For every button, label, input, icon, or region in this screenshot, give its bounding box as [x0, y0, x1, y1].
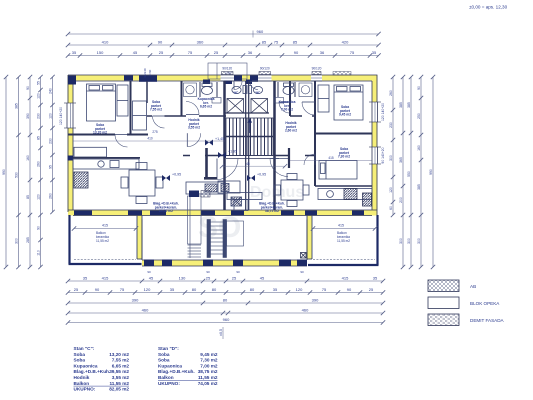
balcony C dim: [72, 224, 138, 231]
exterior wall right (yellow): [372, 75, 378, 215]
wall soba C2 bottom: [147, 115, 181, 117]
svg-text:BLOK OPEKA: BLOK OPEKA: [470, 301, 500, 306]
svg-text:80: 80: [192, 287, 197, 292]
shower D: [299, 83, 312, 97]
svg-text:45: 45: [246, 162, 250, 166]
wc C fixture: [232, 86, 247, 94]
dimension line bottom 1: [66, 276, 385, 284]
dimension line left 2: [15, 75, 21, 269]
svg-text:Balkon: Balkon: [158, 375, 174, 380]
svg-text:7,55 m2: 7,55 m2: [112, 358, 130, 363]
kitchen counter C2: [186, 182, 224, 194]
svg-text:25: 25: [159, 50, 164, 55]
svg-text:75: 75: [120, 287, 125, 292]
svg-text:3,55 m2: 3,55 m2: [112, 375, 130, 380]
shaft block top wall: [139, 68, 157, 82]
svg-text:38,75 m2: 38,75 m2: [198, 369, 218, 374]
door bedroom D: [302, 102, 315, 115]
svg-text:2,60 m2: 2,60 m2: [285, 129, 297, 133]
svg-text:Stan "C":: Stan "C":: [74, 346, 95, 351]
entry door C: [234, 82, 242, 90]
svg-text:±0,5: ±0,5: [219, 329, 223, 336]
dimension line left 1: [2, 75, 8, 269]
interior dim hline2: [73, 140, 225, 142]
balcony C parapet (yellow): [137, 216, 142, 260]
opening bottom wall 8: [352, 211, 364, 216]
entry door block C: [234, 75, 242, 80]
terrace pillar 4: [233, 260, 243, 267]
svg-text:25: 25: [206, 276, 211, 281]
svg-text:45: 45: [260, 276, 265, 281]
stair landing: [226, 156, 279, 159]
svg-text:120: 120: [37, 93, 41, 99]
svg-text:275: 275: [152, 130, 158, 134]
svg-text:UKUPNO:: UKUPNO:: [158, 381, 180, 386]
dining table D: [275, 174, 310, 207]
svg-text:+1,45: +1,45: [215, 137, 224, 141]
svg-text:11,55 m2: 11,55 m2: [198, 375, 218, 380]
svg-text:Soba: Soba: [158, 352, 170, 357]
svg-text:240: 240: [49, 88, 53, 94]
wardrobe D: [318, 85, 329, 112]
svg-text:25: 25: [214, 50, 219, 55]
svg-text:7,30 m2: 7,30 m2: [338, 155, 350, 159]
door bathroom C: [186, 102, 199, 115]
dimension line left 3: [26, 75, 32, 269]
dimension line bottom 4: [66, 308, 385, 316]
svg-text:7,30 m2: 7,30 m2: [200, 358, 218, 363]
svg-text:90: 90: [206, 270, 210, 274]
svg-text:120: 120: [49, 113, 53, 119]
svg-text:25: 25: [74, 287, 79, 292]
level mark +0,95 at 251,178: [247, 173, 266, 182]
svg-text:90: 90: [300, 270, 304, 274]
kitchen counter D: [318, 189, 372, 200]
svg-text:90/120: 90/120: [260, 67, 270, 71]
interior walls unit D: [274, 81, 372, 210]
label soba C2: [150, 100, 162, 112]
staircase: [226, 118, 273, 156]
stove X square center: [231, 197, 242, 206]
entry jamb blocks: [203, 80, 252, 85]
svg-text:300: 300: [399, 238, 403, 244]
svg-text:+0,95: +0,95: [257, 173, 266, 177]
svg-text:415: 415: [338, 224, 344, 228]
svg-text:230: 230: [389, 122, 393, 128]
svg-text:11,55 m2: 11,55 m2: [109, 381, 129, 386]
label hodnik C: [188, 118, 200, 130]
window top wall 1: [221, 67, 235, 82]
svg-text:35: 35: [170, 287, 175, 292]
opening bottom wall 6: [281, 211, 294, 216]
balcony C outline: [69, 215, 143, 264]
svg-text:±0,00 = aps. 12,30: ±0,00 = aps. 12,30: [469, 5, 508, 10]
svg-text:55: 55: [37, 81, 41, 85]
opening bottom wall 3: [150, 211, 166, 216]
dimension line left 4: [37, 75, 43, 269]
label soba D1: [339, 105, 351, 117]
svg-text:110: 110: [37, 250, 41, 256]
svg-text:75: 75: [350, 50, 355, 55]
svg-text:415: 415: [342, 276, 349, 281]
svg-text:Stan "D":: Stan "D":: [158, 346, 179, 351]
shaft box D (X): [251, 99, 268, 114]
terrace pillar 1: [144, 260, 154, 267]
svg-text:260: 260: [389, 90, 393, 96]
svg-text:74,05 m2: 74,05 m2: [198, 381, 218, 386]
svg-text:45: 45: [149, 276, 154, 281]
window top wall 2: [258, 67, 272, 82]
svg-text:95: 95: [49, 165, 53, 169]
svg-text:120: 120: [144, 287, 151, 292]
svg-text:90: 90: [417, 86, 421, 90]
center dividing wall: [246, 81, 249, 210]
level mark +1,95 at 222,155: [218, 150, 237, 159]
svg-text:200: 200: [399, 197, 403, 203]
svg-text:90/240: 90/240: [143, 68, 147, 78]
svg-text:460: 460: [142, 308, 149, 313]
svg-text:530: 530: [15, 172, 19, 178]
svg-text:120 140+20: 120 140+20: [59, 107, 63, 125]
svg-text:385: 385: [407, 102, 411, 108]
svg-text:960: 960: [223, 317, 230, 322]
svg-text:11,55 m2: 11,55 m2: [96, 239, 109, 243]
svg-text:36: 36: [248, 50, 253, 55]
svg-text:80: 80: [223, 298, 228, 303]
svg-text:Kupaonica: Kupaonica: [74, 363, 98, 368]
svg-text:WC: WC: [256, 91, 261, 95]
svg-text:Blag.+D.B.+Kuh.: Blag.+D.B.+Kuh.: [158, 369, 195, 374]
svg-text:990: 990: [429, 169, 433, 175]
exterior wall bottom (yellow): [68, 210, 377, 216]
door bedroom C: [115, 135, 128, 148]
entry canopy outline: [208, 63, 247, 79]
svg-text:300: 300: [15, 238, 19, 244]
legend DEMIT FASADA: [428, 314, 505, 326]
washbasin D: [275, 98, 284, 104]
dimension line bottom 2: [66, 287, 385, 295]
kitchen wall line C: [68, 157, 140, 159]
shower C: [184, 83, 197, 97]
opening bottom wall 7: [305, 211, 317, 216]
wall block 1: [124, 75, 133, 80]
interior dim hline: [290, 160, 372, 162]
svg-text:Soba: Soba: [158, 358, 170, 363]
interior walls unit C: [68, 81, 226, 210]
svg-text:360: 360: [197, 40, 204, 45]
terrace pillar 3: [203, 260, 213, 267]
svg-text:90: 90: [294, 50, 299, 55]
svg-text:300: 300: [417, 238, 421, 244]
svg-text:WC: WC: [234, 91, 239, 95]
svg-text:120: 120: [389, 187, 393, 193]
entry door D: [250, 82, 258, 90]
svg-text:AB: AB: [470, 284, 476, 289]
datum mark bottom center: [219, 327, 223, 339]
label kupaonica D: [279, 100, 296, 112]
svg-text:230: 230: [37, 113, 41, 119]
balcony D dim: [311, 224, 377, 231]
svg-text:90: 90: [95, 287, 100, 292]
exterior wall top (yellow): [68, 75, 377, 81]
label soba D2: [338, 147, 350, 159]
washbasin C: [212, 98, 221, 104]
svg-text:90/120: 90/120: [222, 67, 232, 71]
label living C: [153, 202, 179, 214]
door bathroom D: [279, 102, 290, 113]
svg-text:300: 300: [389, 155, 393, 161]
svg-text:390: 390: [132, 298, 139, 303]
balcony D outline: [307, 215, 379, 265]
dimension line right 4: [417, 75, 423, 269]
svg-text:6,65 m2: 6,65 m2: [200, 105, 212, 109]
wall edge lines: [68, 75, 377, 216]
svg-text:75: 75: [188, 50, 193, 55]
legend BLOK OPEKA: [428, 297, 500, 309]
balcony D corner X: [301, 253, 307, 259]
svg-text:90: 90: [147, 270, 151, 274]
svg-text:365: 365: [399, 157, 403, 163]
bed C: [87, 84, 116, 121]
stair arrow: [248, 119, 251, 133]
svg-text:385: 385: [399, 102, 403, 108]
svg-text:385: 385: [15, 103, 19, 109]
appliance block C1: [189, 191, 199, 198]
area table stan D: [158, 346, 218, 386]
opening bottom wall 1: [74, 211, 92, 216]
svg-text:260: 260: [49, 193, 53, 199]
exterior wall left (yellow): [68, 75, 74, 212]
svg-text:85: 85: [37, 136, 41, 140]
dimension line right 1: [389, 75, 395, 217]
wc D fixture: [248, 86, 263, 94]
terrace planter: [227, 221, 244, 246]
svg-text:90: 90: [347, 287, 352, 292]
label wc D: [256, 91, 261, 95]
svg-text:Hodnik: Hodnik: [74, 375, 90, 380]
svg-text:260: 260: [37, 161, 41, 167]
svg-text:Kupaonica: Kupaonica: [158, 363, 182, 368]
window left wall: [59, 103, 76, 128]
svg-text:+1,95: +1,95: [228, 150, 237, 154]
shaft box C (X): [227, 99, 244, 114]
svg-text:25: 25: [232, 276, 237, 281]
svg-text:6,65 m2: 6,65 m2: [112, 363, 130, 368]
svg-text:35: 35: [273, 287, 278, 292]
svg-text:960: 960: [257, 29, 264, 34]
kitchen counter C: [73, 159, 139, 169]
svg-text:120: 120: [37, 194, 41, 200]
counter long center: [227, 193, 262, 200]
svg-text:120 140+20: 120 140+20: [381, 103, 385, 121]
stove C hatched: [74, 172, 88, 188]
svg-text:90 140+20: 90 140+20: [381, 147, 385, 163]
svg-text:13,20 m2: 13,20 m2: [93, 131, 107, 135]
opening bottom wall 5: [231, 211, 244, 216]
window top wall 3: [311, 67, 322, 82]
svg-text:415: 415: [102, 276, 109, 281]
area table stan C: [74, 346, 130, 392]
balcony D parapet (yellow): [307, 216, 312, 260]
svg-text:160: 160: [417, 145, 421, 151]
dimension line top A: [66, 40, 381, 48]
svg-text:160: 160: [26, 155, 30, 161]
dimension line right 2: [399, 75, 405, 269]
svg-text:7,00 m2: 7,00 m2: [200, 363, 218, 368]
svg-text:39,55 m2: 39,55 m2: [109, 369, 129, 374]
wardrobe C1: [117, 85, 128, 116]
svg-text:415: 415: [328, 156, 334, 160]
left wall block: [68, 156, 74, 161]
door living C: [217, 159, 238, 180]
svg-text:285: 285: [26, 237, 30, 243]
dimension line bottom 3: [66, 298, 385, 306]
dimension line right 3: [407, 75, 413, 269]
svg-text:7,00 m2: 7,00 m2: [281, 108, 293, 112]
svg-text:420: 420: [342, 40, 349, 45]
window right wall 2: [369, 147, 385, 164]
appliance block C2: [201, 191, 210, 198]
label soba C1: [93, 123, 107, 135]
door soba C2: [153, 116, 165, 128]
svg-text:85: 85: [262, 40, 267, 45]
buffet column terrace: [188, 196, 202, 258]
svg-text:990: 990: [2, 169, 6, 175]
svg-text:90: 90: [26, 86, 30, 90]
label kupaonica C: [198, 97, 215, 109]
svg-text:Soba: Soba: [74, 358, 86, 363]
svg-text:150: 150: [97, 50, 104, 55]
svg-text:7,55 m2: 7,55 m2: [150, 108, 162, 112]
svg-text:460: 460: [302, 308, 309, 313]
watermark: [198, 184, 304, 244]
terrace parapet edges: [142, 220, 307, 267]
label living D: [259, 202, 285, 214]
balcony C dashed floor edge: [74, 259, 136, 261]
entry wall D: [288, 148, 290, 168]
svg-text:410: 410: [147, 137, 153, 141]
level mark +1,45 at 209,142.5: [205, 137, 224, 146]
dimension line left 5: [49, 75, 55, 214]
svg-text:80: 80: [250, 287, 255, 292]
terrace pillar 6: [297, 260, 307, 267]
svg-text:90/120: 90/120: [312, 67, 322, 71]
svg-text:SO: SO: [198, 211, 241, 244]
svg-text:120: 120: [296, 287, 303, 292]
svg-text:415: 415: [102, 224, 108, 228]
door bedroom D2: [304, 154, 315, 165]
svg-text:82,05 m2: 82,05 m2: [109, 387, 129, 392]
fridge D: [363, 193, 372, 206]
label wc C: [234, 91, 239, 95]
svg-text:9,45 m2: 9,45 m2: [339, 113, 351, 117]
interior dim line 45: [222, 165, 285, 167]
stairwell top wall: [224, 112, 269, 114]
svg-text:250: 250: [417, 113, 421, 119]
svg-text:38,75 m2: 38,75 m2: [265, 209, 279, 213]
svg-text:85: 85: [26, 195, 30, 199]
svg-text:75: 75: [322, 287, 327, 292]
svg-text:9,45 m2: 9,45 m2: [200, 352, 218, 357]
wardrobe C2: [133, 101, 147, 130]
svg-text:36: 36: [320, 50, 325, 55]
label hodnik D: [285, 121, 297, 133]
svg-text:35: 35: [373, 276, 378, 281]
svg-text:Balkon: Balkon: [74, 381, 90, 386]
bed D: [334, 85, 363, 120]
level mark +0,95 at 166,178: [162, 173, 181, 182]
door corridor living C: [187, 133, 200, 146]
svg-text:45: 45: [133, 50, 138, 55]
stove D hatched: [344, 189, 357, 200]
kitchen upper counter C: [74, 147, 107, 157]
overall width line 960: [66, 29, 381, 38]
terrace pillar 2: [162, 260, 172, 267]
bed D2: [319, 161, 357, 180]
dimension line top B: [66, 50, 381, 58]
legend AB: [428, 280, 476, 292]
svg-text:90: 90: [37, 226, 41, 230]
door living D: [270, 159, 288, 177]
svg-text:90: 90: [236, 270, 240, 274]
window right wall 1: [369, 102, 385, 122]
terrace pillar 5: [279, 260, 291, 267]
svg-text:60: 60: [389, 206, 393, 210]
svg-text:13,20 m2: 13,20 m2: [109, 352, 129, 357]
svg-text:385: 385: [417, 184, 421, 190]
svg-text:130: 130: [179, 276, 186, 281]
svg-text:Blag.+D.B.+Kuh.: Blag.+D.B.+Kuh.: [74, 369, 111, 374]
svg-text:DEMIT FASADA: DEMIT FASADA: [470, 318, 505, 323]
toilet D: [283, 83, 294, 95]
svg-text:3,55 m2: 3,55 m2: [188, 126, 200, 130]
svg-text:39,55 m2: 39,55 m2: [159, 209, 173, 213]
svg-text:300: 300: [407, 238, 411, 244]
svg-text:390: 390: [312, 298, 319, 303]
svg-text:11,55 m2: 11,55 m2: [337, 239, 350, 243]
svg-text:35: 35: [72, 50, 77, 55]
svg-text:230: 230: [49, 138, 53, 144]
toilet C: [202, 83, 213, 95]
entry stairs exterior: [207, 220, 227, 258]
counter peninsula: [234, 200, 248, 211]
dining table C: [121, 163, 163, 204]
svg-text:85: 85: [293, 40, 298, 45]
svg-text:90: 90: [158, 40, 163, 45]
svg-text:390: 390: [26, 113, 30, 119]
svg-text:35: 35: [372, 50, 377, 55]
svg-text:Soba: Soba: [74, 352, 86, 357]
svg-text:410: 410: [102, 40, 109, 45]
terrace parapet bottom (yellow): [142, 260, 307, 266]
entry wall C: [204, 148, 217, 179]
svg-text:35: 35: [83, 276, 88, 281]
entry door block D: [250, 75, 258, 80]
svg-text:75: 75: [274, 40, 279, 45]
svg-text:80: 80: [212, 287, 217, 292]
opening bottom wall 2: [128, 211, 142, 216]
svg-text:UKUPNO:: UKUPNO:: [74, 387, 96, 392]
opening bottom wall 4: [201, 211, 215, 216]
svg-text:s=60: s=60: [148, 69, 152, 76]
corner block top-left: [68, 76, 76, 85]
counter block center A: [218, 181, 240, 193]
sill hatch bedroom D: [333, 72, 351, 76]
svg-text:25: 25: [369, 287, 374, 292]
dimension line bottom 5: [66, 317, 385, 325]
dimension line right 5: [429, 75, 435, 269]
svg-text:+0,95: +0,95: [172, 173, 181, 177]
